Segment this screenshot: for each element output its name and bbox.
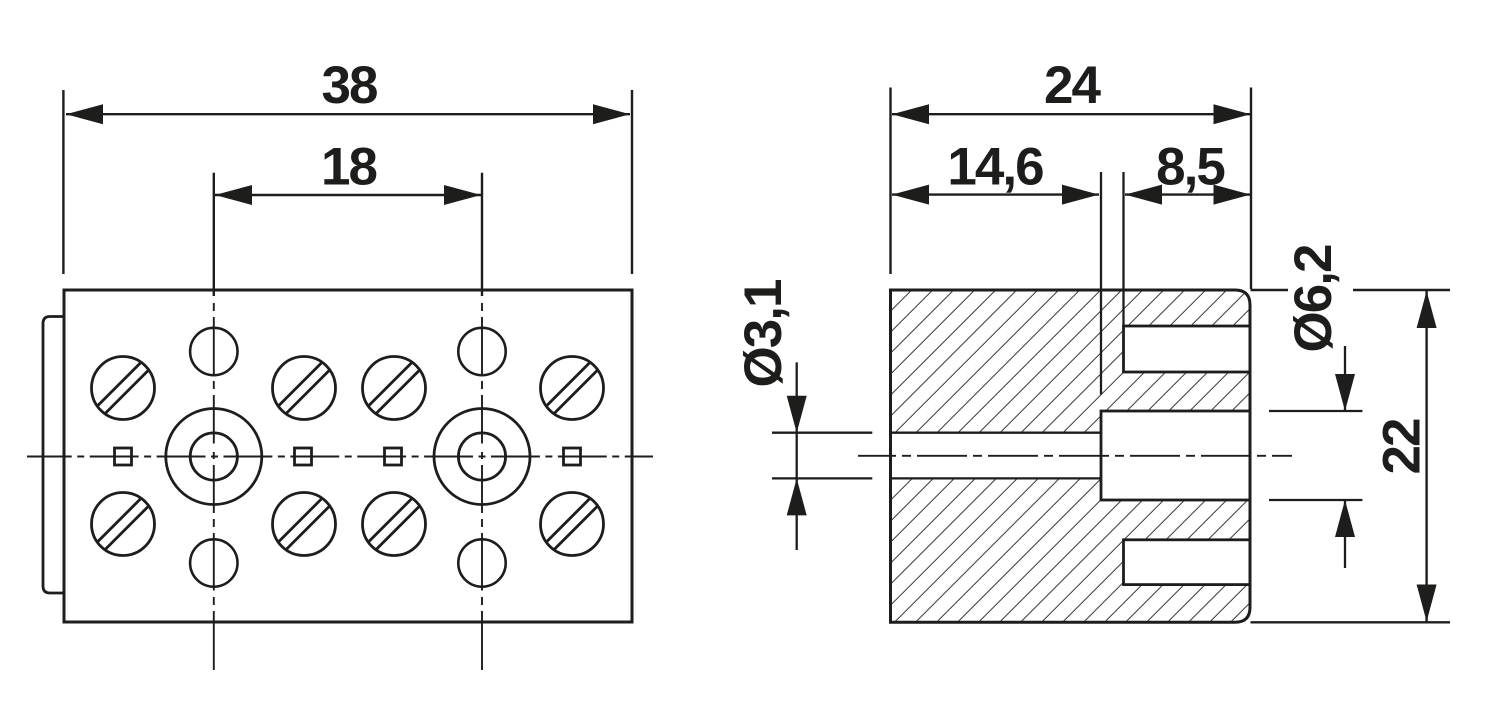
svg-text:8,5: 8,5	[1156, 138, 1224, 197]
screw head S7	[358, 488, 430, 560]
dimension 22 line with arrows	[1425, 291, 1427, 622]
plain hole bottom right	[458, 539, 505, 586]
dimension 38 line with arrows	[66, 113, 630, 115]
svg-text:24: 24	[1044, 56, 1101, 115]
vertical centerline right hole	[481, 303, 483, 670]
plain hole top left	[190, 328, 237, 375]
svg-text:38: 38	[322, 56, 377, 115]
dimension Ø6.2 extension lines	[1269, 411, 1362, 500]
screw head S4	[536, 352, 608, 424]
dimension 38 extension lines	[63, 90, 632, 274]
left view body outline	[64, 290, 632, 622]
dimension 24 extension lines	[891, 88, 1252, 290]
dimension 22 extension lines	[1251, 290, 1451, 622]
screw head S1	[87, 352, 159, 424]
svg-text:14,6: 14,6	[947, 138, 1043, 197]
dimension 18 line with arrows	[215, 194, 481, 196]
bottom groove slot outline	[1124, 540, 1251, 585]
dimension Ø3.1 extension lines	[772, 433, 872, 479]
plain hole bottom left	[190, 539, 237, 586]
top groove slot outline	[1124, 326, 1251, 372]
dimension Ø6.2 arrow lines	[1344, 346, 1346, 411]
dimension 14.6 line with arrows	[892, 193, 1099, 195]
bore 3.1 lines	[891, 433, 1102, 479]
square aperture 3	[385, 448, 402, 465]
screw head S8	[536, 488, 608, 560]
extension line 14.6 into body	[1100, 172, 1102, 395]
dimension 8.5 line with arrows	[1125, 193, 1251, 195]
svg-text:22: 22	[1373, 419, 1432, 474]
counterbore hole left (concentric circles)	[166, 409, 262, 505]
svg-text:18: 18	[321, 138, 376, 197]
screw head S2	[268, 352, 340, 424]
horizontal centerline left view	[27, 456, 653, 458]
vertical centerline left hole	[213, 303, 215, 670]
section body hatched area	[891, 290, 1251, 622]
left side tab	[43, 317, 64, 594]
dimension 18 extension lines	[214, 173, 482, 296]
square aperture 4	[564, 448, 581, 465]
section body outline	[891, 290, 1251, 622]
screw head S3	[358, 352, 430, 424]
dimension 24 line with arrows	[892, 113, 1251, 115]
plain hole top right	[458, 328, 505, 375]
counterbore hole right (concentric circles)	[434, 409, 530, 505]
extension line 8.5 into body	[1122, 172, 1124, 326]
svg-text:Ø3,1: Ø3,1	[734, 280, 793, 387]
square aperture 1	[115, 448, 132, 465]
screw head S6	[268, 488, 340, 560]
dimension Ø3.1 arrow line	[796, 362, 798, 550]
svg-text:Ø6,2: Ø6,2	[1284, 245, 1343, 352]
square aperture 2	[295, 448, 312, 465]
horizontal centerline section view	[858, 455, 1292, 457]
screw head S5	[87, 488, 159, 560]
counterbore 6.2 slot outline	[1101, 411, 1250, 500]
